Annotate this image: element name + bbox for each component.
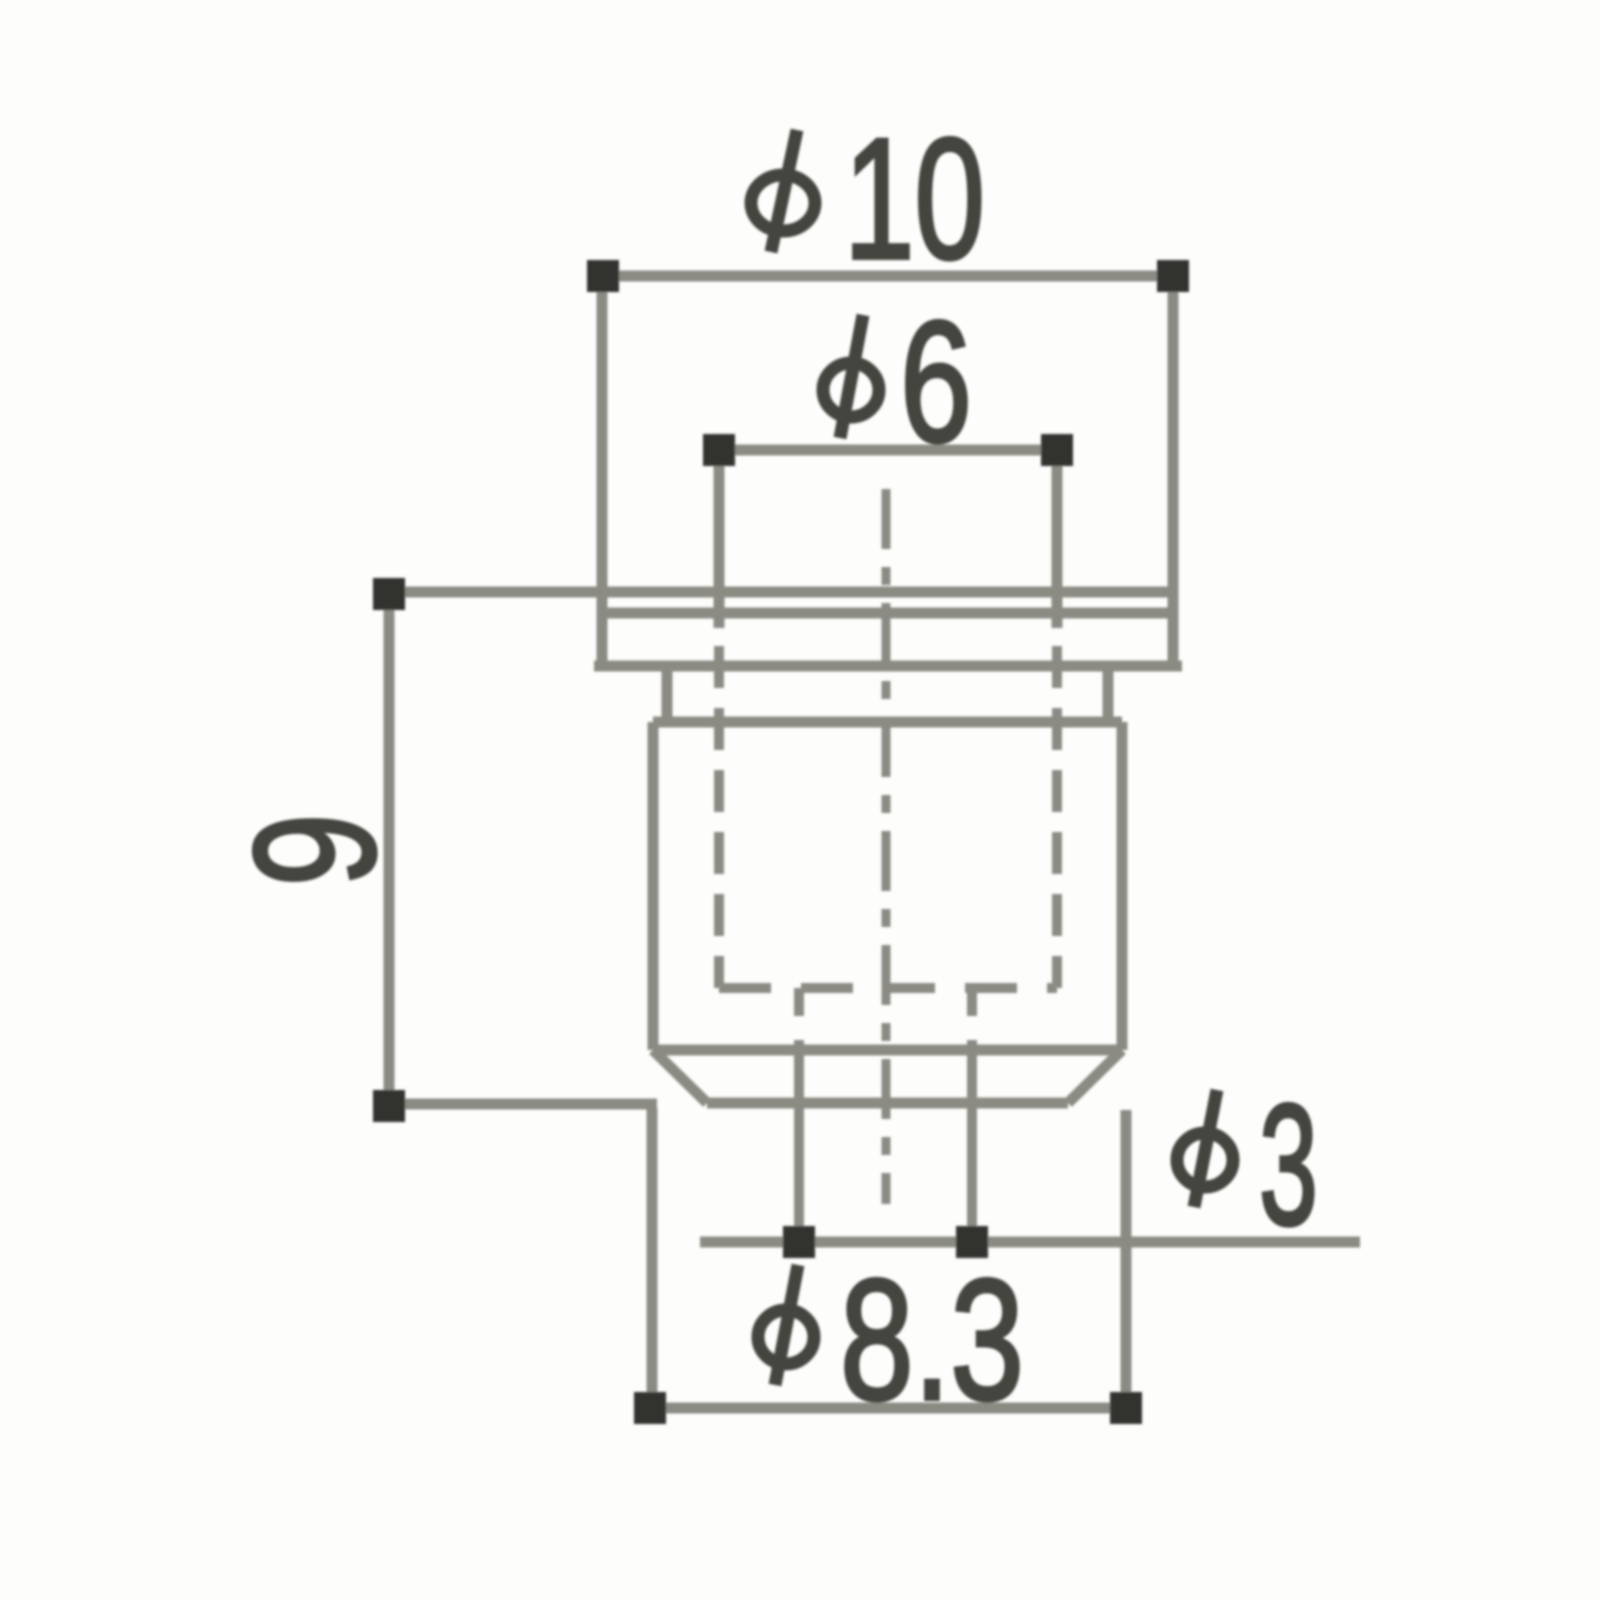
bottom face line [707, 1098, 1068, 1109]
svg-text:3: 3 [1259, 1069, 1318, 1261]
ext line phi8.3 left [647, 1108, 658, 1408]
chamfer left [653, 1050, 707, 1103]
ext line phi10 left / cap left edge [597, 276, 608, 666]
cap inner top line [602, 608, 1173, 619]
body left edge [648, 722, 659, 1050]
dim line phi8.3 [650, 1403, 1126, 1414]
body right edge [1117, 722, 1128, 1050]
dot phi3 left [783, 1226, 815, 1258]
ext line phi10 right / cap right edge [1168, 276, 1179, 666]
hole phi3 left edge [794, 988, 804, 1016]
dim line phi3 [700, 1237, 1360, 1248]
ext line phi6 right (solid part) [1052, 450, 1063, 628]
phi symbol of phi3 [1177, 1090, 1233, 1207]
dim line phi10 [603, 271, 1173, 282]
hidden hole bottom line [719, 983, 1057, 993]
phi symbol of phi6 [823, 315, 879, 438]
neck left edge [662, 666, 673, 722]
centerline [882, 489, 891, 1204]
body top line [653, 717, 1122, 728]
cap top line [602, 587, 1173, 598]
dot phi6 right [1041, 434, 1073, 466]
dot 9 top [373, 578, 405, 610]
neck right edge [1103, 666, 1114, 722]
hole phi3 right edge [967, 988, 977, 1016]
dot phi10 right [1157, 260, 1189, 292]
svg-text:9: 9 [219, 814, 411, 887]
svg-text:8.3: 8.3 [840, 1244, 1024, 1436]
chamfer right [1068, 1050, 1122, 1103]
dim line phi6 [719, 445, 1057, 456]
svg-text:6: 6 [900, 286, 972, 478]
dot phi6 left [703, 434, 735, 466]
dot 9 bottom [373, 1090, 405, 1122]
ext line phi6 left (solid part) [714, 450, 725, 628]
dot phi8.3 left [634, 1392, 666, 1424]
dot phi10 left [587, 260, 619, 292]
ext line 9 top [389, 587, 602, 598]
body bottom line [653, 1045, 1122, 1056]
svg-text:10: 10 [844, 103, 985, 295]
dim line 9 (vertical) [384, 594, 395, 1106]
phi symbol of phi8.3 [758, 1265, 814, 1385]
hidden hole line phi6 right [1052, 646, 1062, 988]
cap bottom line [594, 661, 1182, 672]
hidden hole line phi6 left [714, 646, 724, 988]
ext line 9 bottom [389, 1099, 657, 1110]
dot phi3 right [956, 1226, 988, 1258]
dot phi8.3 right [1110, 1392, 1142, 1424]
ext line phi8.3 right [1121, 1110, 1132, 1408]
phi symbol of phi10 [751, 130, 815, 252]
